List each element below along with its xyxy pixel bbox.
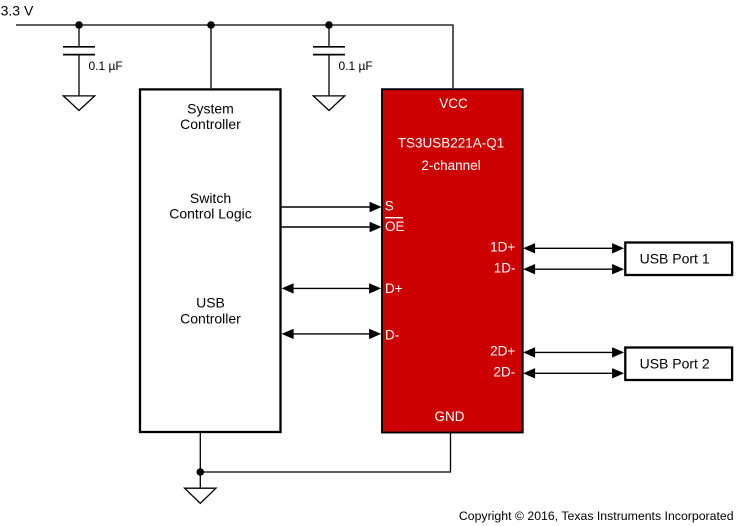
svg-text:USB Port 2: USB Port 2: [640, 355, 710, 371]
svg-text:System: System: [187, 100, 234, 116]
svg-text:1D+: 1D+: [490, 239, 515, 254]
svg-text:Controller: Controller: [180, 116, 241, 132]
svg-text:S: S: [385, 199, 394, 214]
svg-text:3.3 V: 3.3 V: [1, 2, 34, 18]
svg-text:Control Logic: Control Logic: [169, 206, 252, 222]
svg-text:VCC: VCC: [439, 96, 468, 111]
svg-text:OE: OE: [385, 219, 405, 234]
svg-text:Copyright © 2016, Texas Instru: Copyright © 2016, Texas Instruments Inco…: [459, 509, 734, 523]
svg-text:TS3USB221A-Q1: TS3USB221A-Q1: [398, 135, 505, 150]
svg-text:2-channel: 2-channel: [421, 158, 480, 173]
svg-text:Switch: Switch: [190, 190, 231, 206]
svg-text:D+: D+: [385, 281, 403, 296]
svg-text:Controller: Controller: [180, 310, 241, 326]
svg-text:USB: USB: [196, 295, 225, 311]
svg-text:2D-: 2D-: [494, 365, 516, 380]
svg-text:GND: GND: [435, 409, 465, 424]
svg-text:1D-: 1D-: [494, 260, 516, 275]
svg-text:0.1 µF: 0.1 µF: [89, 59, 123, 73]
svg-text:0.1 µF: 0.1 µF: [339, 59, 373, 73]
svg-text:USB Port 1: USB Port 1: [640, 250, 710, 266]
svg-text:2D+: 2D+: [490, 344, 515, 359]
svg-text:D-: D-: [385, 328, 399, 343]
